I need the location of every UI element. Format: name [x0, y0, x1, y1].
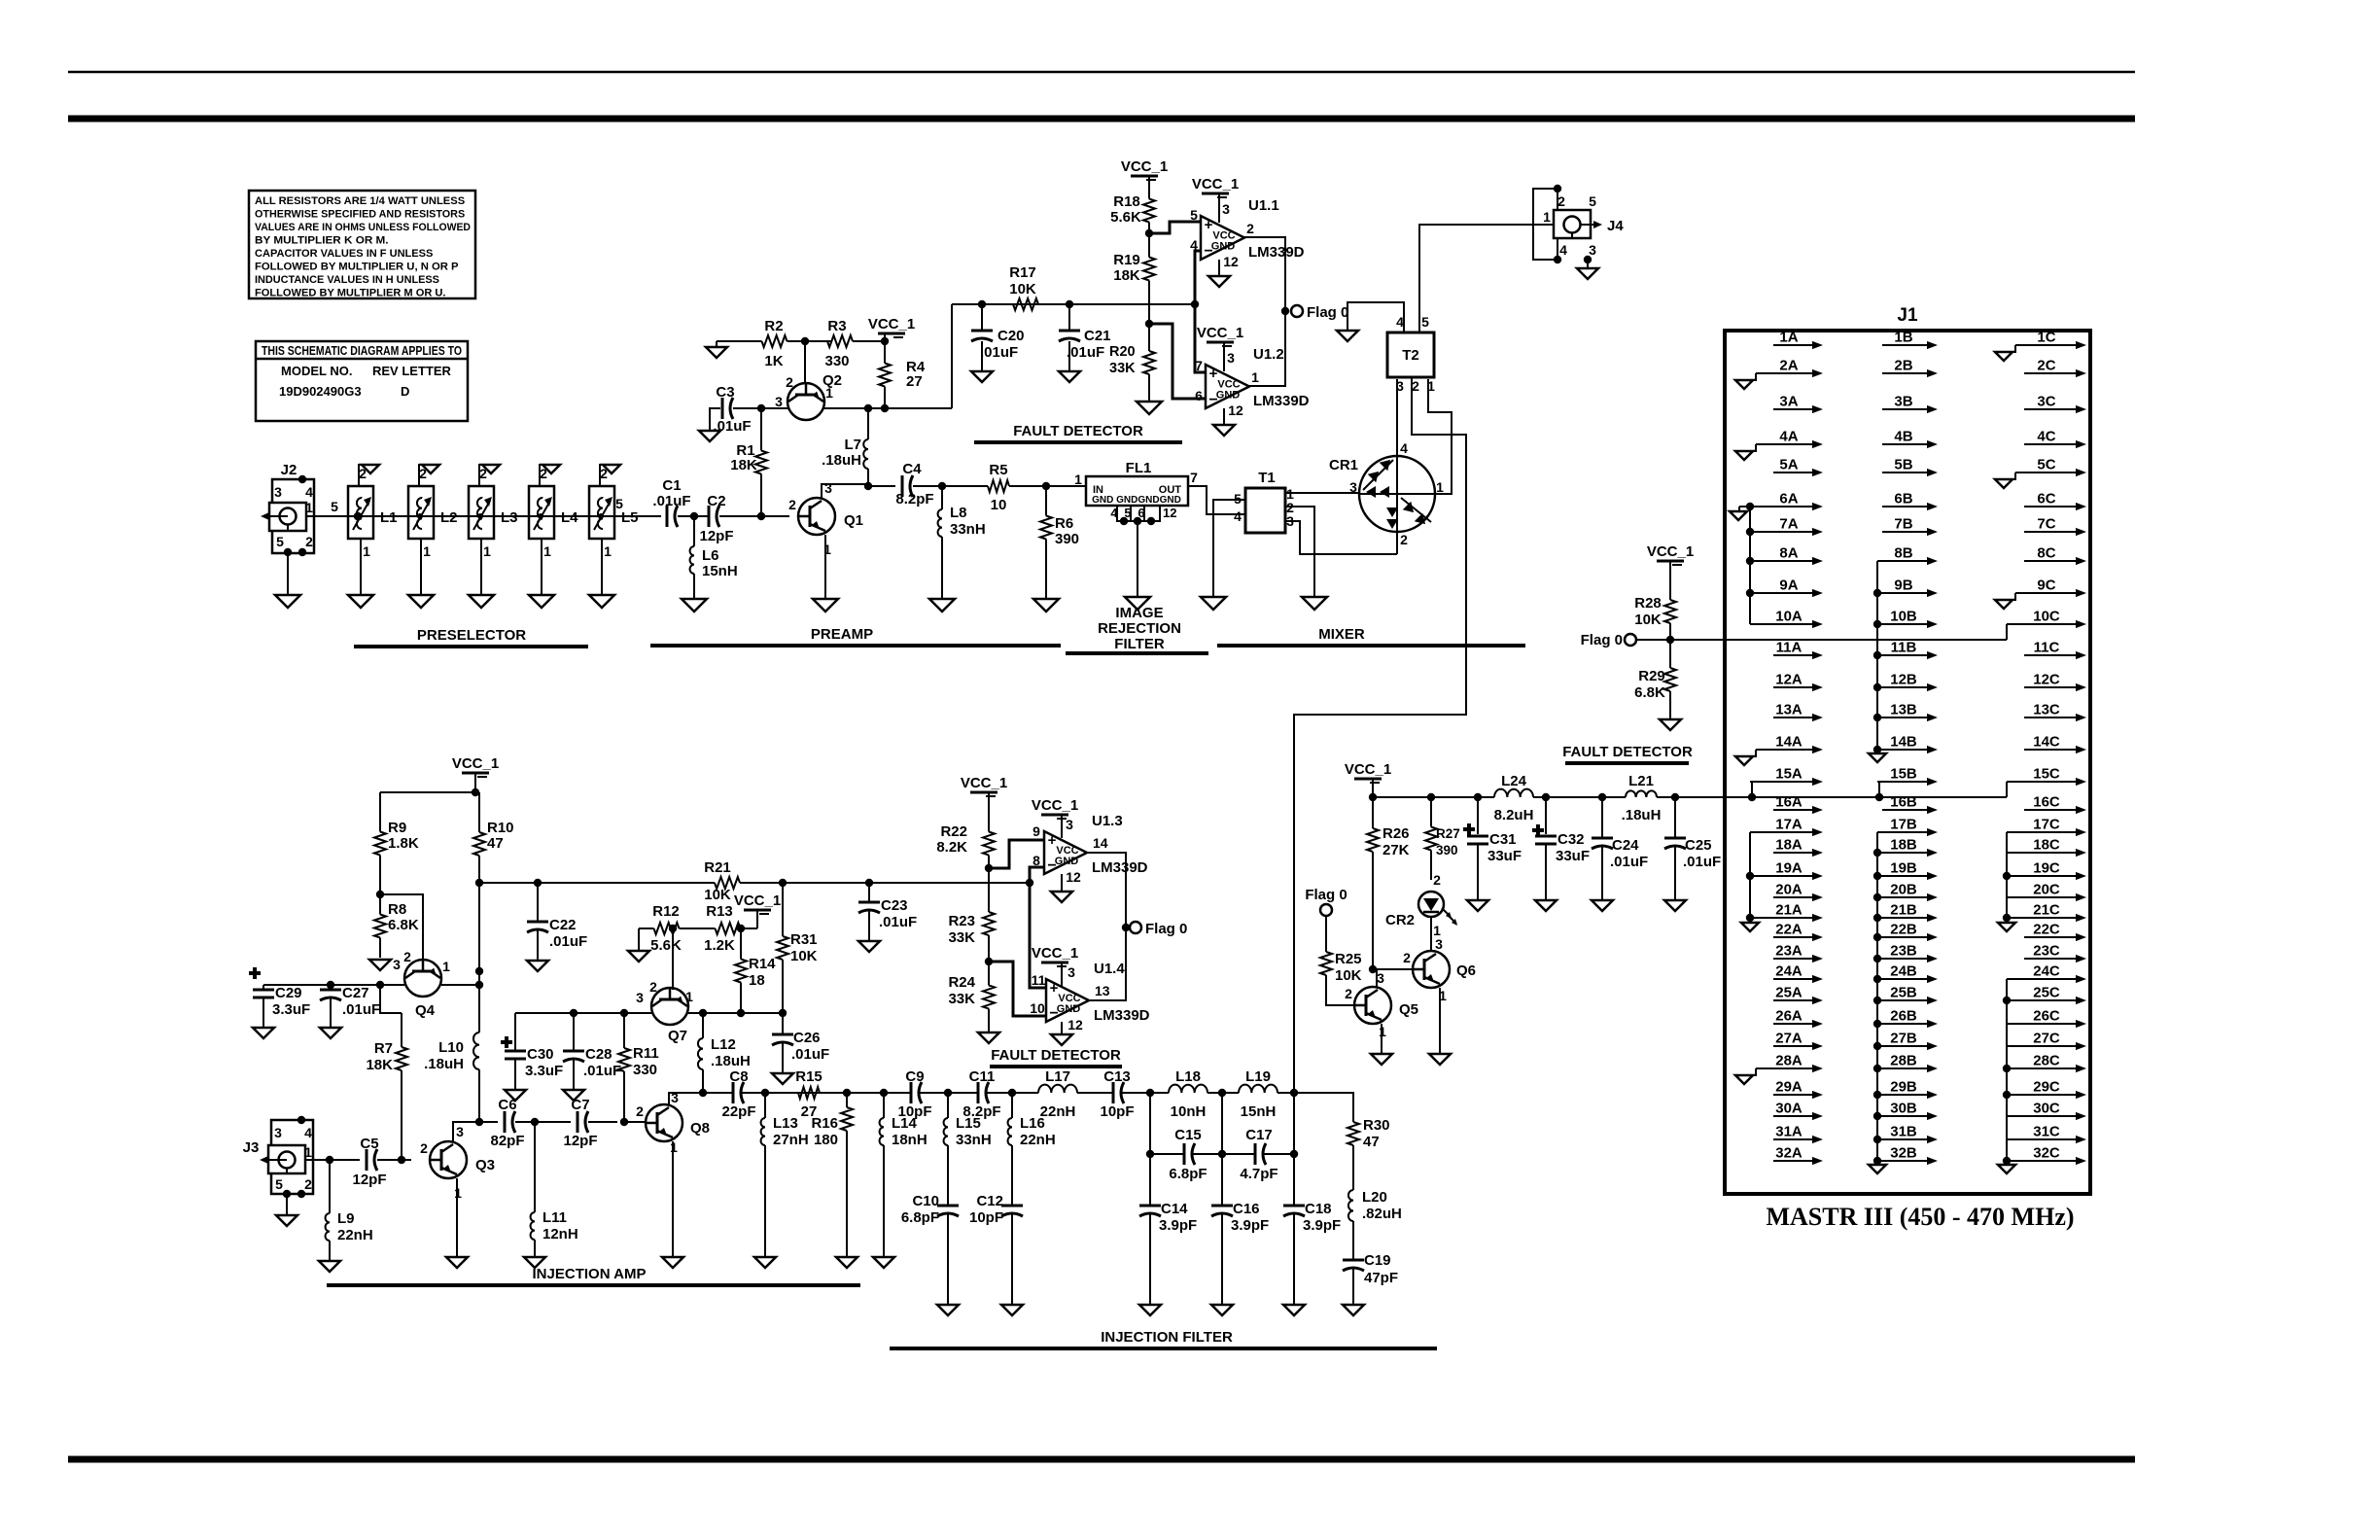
wire base node to R7: [380, 985, 402, 1013]
inductor L8: [938, 486, 986, 599]
wire R12 gnd stem: [638, 928, 640, 951]
J1 C column rows: [2007, 330, 2086, 1166]
svg-text:C8: C8: [729, 1068, 748, 1085]
wire T1 pin3 to CR1 low: [1285, 521, 1397, 554]
connector J4: [1533, 185, 1624, 263]
transformer T1: [1234, 470, 1294, 533]
svg-text:VCC_1: VCC_1: [1197, 325, 1243, 341]
J1 15A riser: [1751, 782, 1753, 797]
power VCC_1 at R18: [1121, 158, 1168, 188]
inductor L5: [589, 465, 639, 595]
wire Q6 base: [1369, 965, 1415, 973]
inductor L9: [326, 1160, 373, 1261]
svg-text:11B: 11B: [1891, 640, 1917, 656]
svg-text:VCC_1: VCC_1: [1192, 176, 1239, 192]
resistor R6: [1040, 486, 1079, 569]
ground under C20: [971, 371, 993, 382]
svg-text:6.8pF: 6.8pF: [901, 1209, 939, 1226]
wire rail to 15C: [2006, 782, 2008, 797]
svg-text:1K: 1K: [764, 353, 783, 369]
svg-text:.01uF: .01uF: [549, 933, 587, 950]
svg-text:C24: C24: [1612, 837, 1639, 854]
wire flag row: [1636, 636, 2007, 644]
wire flag to R25: [1325, 916, 1327, 935]
svg-text:R30: R30: [1363, 1117, 1390, 1134]
svg-text:J3: J3: [243, 1139, 260, 1156]
svg-text:12: 12: [1163, 506, 1176, 520]
svg-text:ALL RESISTORS ARE 1/4 WATT UNL: ALL RESISTORS ARE 1/4 WATT UNLESS: [255, 195, 466, 207]
svg-text:R13: R13: [706, 903, 733, 920]
preselector underline: [354, 645, 588, 648]
svg-text:8.2uH: 8.2uH: [1494, 807, 1534, 823]
svg-text:2: 2: [1412, 378, 1419, 394]
svg-text:13A: 13A: [1775, 702, 1802, 718]
wire Q4 base to divider: [380, 894, 423, 960]
svg-text:10: 10: [1030, 1000, 1045, 1016]
ground under C10: [937, 1305, 959, 1315]
svg-text:R22: R22: [940, 823, 967, 840]
svg-text:2: 2: [1246, 221, 1254, 236]
svg-text:+: +: [1050, 980, 1059, 997]
svg-text:33nH: 33nH: [950, 521, 986, 538]
svg-text:1: 1: [1074, 472, 1082, 487]
inductor L24: [1494, 773, 1534, 823]
power VCC_1 at R22: [961, 775, 1007, 819]
svg-text:9C: 9C: [2037, 577, 2055, 594]
svg-text:4C: 4C: [2037, 429, 2055, 445]
svg-text:R28: R28: [1634, 595, 1662, 612]
svg-text:Q1: Q1: [844, 512, 863, 529]
svg-text:INJECTION AMP: INJECTION AMP: [533, 1266, 647, 1282]
svg-text:J4: J4: [1607, 218, 1624, 234]
svg-text:1: 1: [1427, 378, 1435, 394]
transistor Q3: [420, 1124, 495, 1201]
svg-text:GND: GND: [1211, 241, 1236, 253]
label PRESELECTOR: [417, 627, 526, 644]
inductor L11: [531, 1122, 578, 1257]
svg-text:VCC_1: VCC_1: [1647, 543, 1694, 560]
svg-text:L20: L20: [1362, 1189, 1387, 1206]
svg-text:2: 2: [305, 534, 313, 549]
svg-text:13B: 13B: [1890, 702, 1917, 718]
svg-text:.01uF: .01uF: [1067, 344, 1104, 361]
svg-text:OTHERWISE SPECIFIED AND RESIST: OTHERWISE SPECIFIED AND RESISTORS: [255, 209, 466, 221]
svg-text:J2: J2: [281, 462, 297, 478]
svg-text:14C: 14C: [2033, 734, 2060, 751]
svg-text:3: 3: [1349, 479, 1357, 495]
wire Q3 collector: [453, 1122, 479, 1141]
inductor L10: [424, 999, 479, 1122]
svg-text:2: 2: [403, 949, 411, 964]
resistor R9: [374, 792, 419, 894]
svg-text:L8: L8: [950, 505, 967, 521]
wire R11 bottom: [624, 1121, 646, 1123]
wire C6-C7: [515, 1118, 571, 1126]
svg-text:11C: 11C: [2034, 640, 2060, 656]
svg-text:C26: C26: [793, 1030, 821, 1046]
svg-text:27: 27: [906, 373, 923, 390]
svg-text:33uF: 33uF: [1487, 848, 1522, 864]
capacitor C18: [1283, 1201, 1341, 1305]
svg-text:3A: 3A: [1779, 394, 1798, 410]
ground under R6: [1033, 599, 1059, 612]
svg-text:R21: R21: [704, 859, 731, 876]
svg-text:C5: C5: [360, 1136, 378, 1152]
wire C18 col: [1293, 1093, 1295, 1206]
svg-text:3: 3: [456, 1124, 464, 1139]
svg-text:Q2: Q2: [822, 372, 842, 389]
svg-text:2: 2: [419, 466, 427, 481]
ground at R12: [628, 951, 649, 962]
svg-text:1C: 1C: [2037, 330, 2055, 346]
wire Q2 emitter rail: [823, 404, 952, 412]
svg-text:C16: C16: [1233, 1201, 1260, 1217]
svg-text:.18uH: .18uH: [822, 452, 861, 469]
capacitor C29: [249, 967, 310, 1028]
wire J4 gnd: [1587, 260, 1589, 268]
wire pin8/11 riser: [1030, 867, 1046, 988]
svg-text:24B: 24B: [1890, 963, 1917, 980]
svg-text:U1.4: U1.4: [1094, 961, 1125, 977]
svg-text:19C: 19C: [2033, 860, 2060, 877]
inductor L15: [944, 1089, 992, 1206]
svg-text:2: 2: [1345, 986, 1352, 1001]
ground under U1.3: [1051, 892, 1072, 902]
wire node to U1.2 pin6: [1149, 324, 1206, 399]
wire U1.3 output: [1087, 853, 1126, 927]
svg-text:L11: L11: [542, 1209, 567, 1226]
svg-text:22B: 22B: [1890, 922, 1917, 938]
svg-text:20C: 20C: [2033, 882, 2060, 898]
svg-text:C18: C18: [1305, 1201, 1332, 1217]
wire R2 gnd stem: [716, 341, 717, 347]
svg-text:1: 1: [670, 1139, 678, 1155]
svg-text:VALUES ARE IN OHMS UNLESS FOLL: VALUES ARE IN OHMS UNLESS FOLLOWED: [255, 222, 471, 233]
svg-text:J1: J1: [1897, 305, 1918, 326]
J1 gnd 9C: [1995, 593, 2015, 609]
svg-text:3: 3: [1589, 242, 1596, 258]
svg-text:U1.2: U1.2: [1253, 346, 1284, 363]
svg-text:T1: T1: [1258, 470, 1276, 486]
svg-text:FOLLOWED BY MULTIPLIER U, N OR: FOLLOWED BY MULTIPLIER U, N OR P: [255, 262, 459, 273]
resistor R18: [1110, 188, 1155, 233]
inductor L20: [1348, 1155, 1402, 1259]
J1 gnd 4A: [1735, 444, 1756, 460]
ground under C24: [1592, 900, 1613, 911]
svg-text:23B: 23B: [1890, 943, 1917, 960]
svg-text:VCC_1: VCC_1: [734, 892, 781, 909]
svg-text:C32: C32: [1557, 831, 1585, 848]
svg-text:2: 2: [1403, 950, 1411, 965]
wire Q4 base row: [263, 981, 404, 989]
capacitor C23: [858, 883, 917, 941]
svg-text:VCC_1: VCC_1: [1032, 945, 1078, 962]
svg-text:32A: 32A: [1775, 1145, 1802, 1162]
svg-text:15A: 15A: [1775, 766, 1802, 783]
wire node to U1.4 pin10: [989, 962, 1046, 1016]
svg-text:L3: L3: [501, 509, 518, 526]
svg-text:C17: C17: [1245, 1127, 1273, 1143]
svg-text:2: 2: [359, 466, 367, 481]
wire node to U1.3 pin9: [989, 840, 1044, 868]
resistor R10: [473, 792, 514, 971]
svg-text:33uF: 33uF: [1556, 848, 1590, 864]
svg-text:+: +: [1048, 832, 1057, 849]
inductor L16: [1008, 1089, 1056, 1206]
svg-text:.18uH: .18uH: [424, 1056, 464, 1072]
svg-text:R19: R19: [1113, 252, 1140, 268]
svg-text:C21: C21: [1084, 328, 1111, 344]
svg-text:27C: 27C: [2033, 1031, 2060, 1047]
J1 gnd 14A: [1735, 750, 1756, 765]
svg-text:.01uF: .01uF: [1683, 854, 1721, 870]
svg-text:C14: C14: [1161, 1201, 1188, 1217]
wire node to U1.1 pin5: [1149, 222, 1201, 233]
label PREAMP: [811, 626, 873, 643]
svg-text:1: 1: [423, 543, 431, 559]
svg-text:L17: L17: [1045, 1068, 1070, 1085]
svg-text:3C: 3C: [2037, 394, 2055, 410]
label INJECTION AMP: [533, 1266, 647, 1282]
wire T1 pin1 to CR1: [1285, 492, 1359, 494]
svg-text:CAPACITOR VALUES IN F UNLESS: CAPACITOR VALUES IN F UNLESS: [255, 248, 434, 260]
svg-text:LM339D: LM339D: [1253, 393, 1310, 409]
svg-text:7C: 7C: [2037, 516, 2055, 533]
svg-text:82pF: 82pF: [490, 1133, 524, 1149]
svg-text:21A: 21A: [1775, 902, 1802, 919]
J1 C bus 17-21: [1998, 832, 2015, 931]
capacitor C32: [1532, 797, 1590, 900]
svg-text:C27: C27: [342, 985, 369, 1001]
svg-text:L13: L13: [773, 1115, 798, 1132]
wire Q6 emitter: [1439, 988, 1441, 1054]
svg-text:6.8K: 6.8K: [1634, 684, 1665, 701]
wire U1.4 gnd: [1061, 1022, 1063, 1034]
wire rail into J1: [1675, 793, 2007, 801]
svg-text:INJECTION FILTER: INJECTION FILTER: [1101, 1329, 1233, 1346]
transistor Q5: [1345, 970, 1418, 1039]
node L12 bottom: [699, 1089, 707, 1097]
ground under J3: [276, 1215, 297, 1226]
wire CR1 top to T2: [1396, 379, 1398, 455]
node C14 col: [1146, 1089, 1154, 1097]
svg-text:Flag 0: Flag 0: [1307, 304, 1348, 321]
wire L5 to C1: [601, 515, 660, 517]
ground under L13: [754, 1257, 776, 1268]
svg-text:R3: R3: [827, 318, 846, 334]
svg-text:C22: C22: [549, 917, 577, 933]
inductor L7: [822, 408, 868, 486]
resistor R21: [700, 859, 754, 903]
wire C23 row to pins: [869, 879, 1033, 887]
ground under J2: [275, 595, 300, 608]
resistor R4: [879, 341, 926, 408]
svg-text:R2: R2: [764, 318, 783, 334]
wire J3 gnd: [286, 1194, 288, 1215]
capacitor C1: [652, 477, 690, 527]
capacitor C16: [1211, 1201, 1269, 1305]
svg-text:C7: C7: [571, 1097, 589, 1113]
svg-text:24A: 24A: [1775, 963, 1802, 980]
inductor L3: [469, 465, 518, 595]
op-amp U1.3: [1032, 813, 1148, 885]
svg-text:10K: 10K: [790, 948, 818, 964]
svg-text:1: 1: [483, 543, 491, 559]
wire R5 to FL1: [1012, 482, 1086, 490]
wire rail to R21: [475, 879, 700, 887]
wire C1-C2: [678, 512, 709, 520]
svg-text:1.8K: 1.8K: [388, 835, 419, 852]
diode quad CR1: [1329, 440, 1444, 547]
resistor R14: [735, 928, 776, 1013]
wire C22 from rail: [479, 882, 538, 884]
power VCC_1 at R13: [734, 892, 781, 928]
svg-text:12: 12: [1228, 402, 1243, 418]
svg-text:5C: 5C: [2037, 457, 2055, 473]
svg-text:U1.3: U1.3: [1092, 813, 1123, 829]
J1 gnd 28A: [1735, 1068, 1756, 1084]
svg-text:1: 1: [305, 500, 313, 515]
ground under C12: [1001, 1305, 1023, 1315]
J1 B bus 8-14: [1869, 561, 1886, 762]
svg-text:8.2pF: 8.2pF: [895, 491, 933, 507]
ground under L3: [469, 595, 494, 608]
svg-text:L6: L6: [702, 547, 719, 564]
svg-text:22C: 22C: [2033, 922, 2060, 938]
wire R21 to C23 node: [754, 879, 1030, 887]
svg-text:10C: 10C: [2033, 609, 2060, 625]
svg-text:+: +: [1209, 366, 1218, 382]
wire R12-R13: [669, 925, 700, 932]
svg-text:R9: R9: [388, 820, 406, 836]
svg-text:PRESELECTOR: PRESELECTOR: [417, 627, 526, 644]
power VCC_1 at U1.4: [1032, 945, 1078, 986]
ground under FL1: [1125, 597, 1150, 610]
svg-text:C10: C10: [912, 1193, 939, 1209]
svg-text:2: 2: [540, 466, 547, 481]
svg-text:2A: 2A: [1779, 358, 1798, 374]
ground under L14: [873, 1257, 894, 1268]
svg-text:31B: 31B: [1890, 1124, 1917, 1140]
connector J1 box: [1725, 305, 2090, 1194]
svg-text:1: 1: [442, 959, 450, 974]
wire CR2 to Q6: [1431, 917, 1443, 952]
node R9-R8: [376, 891, 384, 898]
svg-text:3: 3: [274, 484, 282, 500]
svg-text:2: 2: [600, 466, 608, 481]
svg-text:11A: 11A: [1776, 640, 1802, 656]
svg-text:R25: R25: [1335, 951, 1362, 967]
svg-text:8B: 8B: [1894, 545, 1912, 562]
svg-text:7: 7: [1190, 470, 1198, 485]
svg-text:3.9pF: 3.9pF: [1231, 1217, 1269, 1234]
svg-text:3: 3: [1067, 964, 1075, 980]
svg-text:33K: 33K: [948, 991, 975, 1007]
inductor L1: [348, 465, 398, 595]
svg-text:.01uF: .01uF: [791, 1046, 829, 1063]
wire T2 pin5 to J4: [1419, 225, 1554, 332]
svg-text:5B: 5B: [1894, 457, 1912, 473]
svg-text:R15: R15: [795, 1068, 822, 1085]
svg-text:6: 6: [1137, 506, 1144, 520]
notes box: [249, 191, 475, 299]
wire U1.2 pin7: [1195, 304, 1206, 372]
wire Q7 emitter row: [688, 1009, 787, 1017]
inductor L13: [761, 1089, 809, 1257]
transistor Q4: [393, 949, 450, 1019]
ground under C21: [1059, 371, 1080, 382]
svg-text:T2: T2: [1402, 347, 1419, 364]
capacitor C24: [1592, 797, 1648, 900]
wire FL1 gnd: [1137, 521, 1138, 597]
ground at T1 pin5: [1201, 597, 1226, 610]
svg-text:5: 5: [1589, 193, 1596, 209]
J1 A column rows: [1750, 330, 1823, 1166]
svg-text:4: 4: [1234, 508, 1242, 524]
svg-text:Q6: Q6: [1456, 962, 1476, 979]
svg-text:8A: 8A: [1779, 545, 1798, 562]
svg-text:14: 14: [1093, 835, 1108, 851]
capacitor C20: [971, 304, 1025, 371]
svg-text:33nH: 33nH: [956, 1132, 992, 1148]
svg-text:4B: 4B: [1894, 429, 1912, 445]
label MIXER: [1318, 626, 1365, 643]
svg-text:14B: 14B: [1890, 734, 1917, 751]
svg-text:12A: 12A: [1775, 672, 1802, 688]
ground under L9: [319, 1261, 340, 1272]
svg-text:28B: 28B: [1890, 1053, 1917, 1069]
svg-text:VCC_1: VCC_1: [1121, 158, 1168, 175]
svg-text:R27: R27: [1436, 826, 1460, 841]
svg-text:CR1: CR1: [1329, 457, 1358, 473]
svg-text:Q7: Q7: [668, 1028, 687, 1044]
svg-text:9: 9: [1032, 823, 1040, 839]
svg-text:18C: 18C: [2033, 837, 2060, 854]
wire CR1 right to T2 pin1: [1428, 379, 1452, 494]
svg-text:R31: R31: [790, 931, 818, 948]
label IMAGE REJECTION FILTER: [1098, 605, 1181, 652]
ground under L4: [529, 595, 554, 608]
svg-text:12C: 12C: [2033, 672, 2060, 688]
svg-text:R11: R11: [633, 1045, 659, 1062]
svg-text:12pF: 12pF: [352, 1172, 386, 1188]
wire C16 col: [1221, 1093, 1223, 1206]
svg-text:10: 10: [991, 497, 1007, 513]
ground under C27: [320, 1028, 341, 1038]
svg-text:16C: 16C: [2033, 794, 2060, 811]
svg-text:10K: 10K: [1335, 967, 1362, 984]
svg-text:3B: 3B: [1894, 394, 1912, 410]
op-amp U1.1: [1190, 197, 1305, 269]
wire Q5 collector: [1376, 969, 1378, 987]
svg-text:FILTER: FILTER: [1114, 636, 1165, 652]
ground under Q6: [1429, 1054, 1451, 1065]
capacitor C5: [352, 1136, 386, 1188]
svg-text:C20: C20: [997, 328, 1025, 344]
svg-text:18K: 18K: [1113, 267, 1140, 284]
wire T2 pin2 to filter: [1294, 377, 1466, 1093]
inductor L4: [529, 465, 578, 595]
svg-text:L9: L9: [337, 1210, 355, 1227]
svg-text:33K: 33K: [1109, 361, 1136, 376]
flag Flag 0 Q5: [1305, 887, 1347, 916]
svg-text:27nH: 27nH: [773, 1132, 809, 1148]
svg-text:11: 11: [1032, 972, 1046, 988]
svg-text:VCC_1: VCC_1: [868, 316, 915, 332]
svg-text:2: 2: [1557, 193, 1565, 209]
svg-text:VCC_1: VCC_1: [452, 755, 499, 772]
page border bottom thick rule: [68, 1456, 2135, 1463]
